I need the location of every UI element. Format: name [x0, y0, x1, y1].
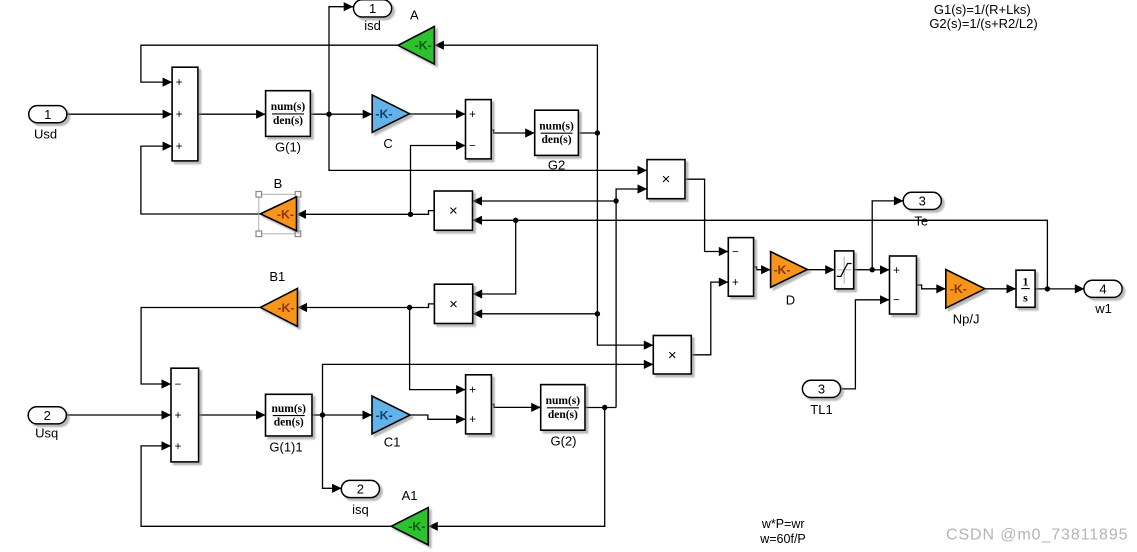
node isq junction at G(1)1 output	[320, 412, 325, 417]
wire product X4 output to Te-sum input plus	[691, 278, 728, 355]
wire G(2) output to vertical bus	[585, 407, 616, 409]
wire TL1 inport to w-sum input minus	[840, 295, 889, 389]
product block X2 (w x psiq)	[434, 191, 472, 230]
svg-text:-K-: -K-	[277, 207, 294, 221]
svg-text:num(s): num(s)	[546, 395, 581, 407]
sum block d-axis Add2 (+ -)	[466, 100, 492, 159]
node w feedback junction at X3 branch	[513, 218, 518, 223]
wire G2 node down to junction at B1-row	[596, 133, 598, 314]
svg-text:3: 3	[818, 382, 825, 397]
wire Usd inport to d-sum1 input 2	[66, 110, 172, 119]
node isd junction at G(1) output	[326, 112, 331, 117]
svg-text:num(s): num(s)	[539, 120, 574, 132]
svg-text:w=60f/P: w=60f/P	[759, 532, 806, 546]
label G(1)	[275, 139, 301, 154]
gain C1 (blue, points right)	[372, 396, 410, 434]
svg-text:den(s): den(s)	[274, 417, 304, 429]
svg-text:s: s	[1023, 290, 1028, 304]
label TL1	[810, 402, 832, 417]
svg-text:num(s): num(s)	[271, 101, 306, 113]
wire G(1) output to C-gain input	[310, 110, 372, 119]
svg-text:−: −	[175, 379, 182, 391]
annotation w=60f/P	[759, 532, 806, 546]
wire G(2) bus up to product X1 input 2	[616, 184, 647, 407]
wire q-sum1 output to G(1)1 input	[199, 410, 266, 419]
svg-text:Usd: Usd	[34, 127, 57, 142]
label isd	[364, 18, 381, 33]
inport 1 Usd	[29, 106, 67, 123]
label Te	[914, 214, 928, 229]
gain C (blue, points right)	[372, 95, 409, 132]
wire w feedback branch down to product X3 input 1	[473, 220, 516, 298]
inport 2 Usq	[28, 407, 66, 424]
svg-text:−: −	[469, 140, 476, 152]
wire D-gain output to saturation input	[807, 265, 834, 274]
wire G2 node up to A-gain input	[434, 41, 597, 133]
svg-text:w1: w1	[1094, 301, 1112, 316]
outport 3 Te	[903, 192, 941, 209]
inport 3 TL1	[802, 380, 840, 397]
label G(1)1	[269, 440, 302, 455]
sum block torque Add5 (- +)	[728, 238, 753, 297]
annotation G1(s)=1/(R+Lks)	[934, 2, 1031, 17]
wire A1-gain output to q-sum1 input 3	[141, 441, 391, 526]
transfer function G2	[535, 110, 579, 155]
wire product X2 output to B-gain input	[297, 210, 435, 219]
wire B-gain output to d-sum1 input 3	[141, 142, 260, 215]
label Usd	[34, 127, 57, 142]
product block X1 (isd x psiq)	[647, 160, 685, 199]
svg-text:G2(s)=1/(s+R2/L2): G2(s)=1/(s+R2/L2)	[929, 16, 1037, 31]
wire X3 output node down to q-sum2 input 1	[410, 308, 466, 395]
svg-text:1: 1	[44, 107, 51, 122]
annotation G2(s)=1/(s+R2/L2)	[929, 16, 1037, 31]
gain A (green, points left)	[398, 27, 434, 65]
gain B1 (orange, points left)	[260, 288, 297, 326]
svg-text:A1: A1	[402, 488, 418, 503]
svg-text:+: +	[175, 441, 182, 453]
svg-text:isd: isd	[364, 18, 381, 33]
wire Usq inport to q-sum1 input 2	[67, 410, 171, 419]
svg-text:B: B	[274, 176, 283, 191]
wire isd node up to isd outport	[329, 2, 353, 114]
wire saturation node up to Te outport	[872, 196, 903, 269]
svg-text:Np/J: Np/J	[953, 311, 980, 326]
label B1	[269, 269, 285, 284]
svg-text:num(s): num(s)	[271, 403, 306, 415]
sum block q-axis Add3 (- + +)	[171, 368, 199, 462]
node G2 bus junction at B1-row	[595, 311, 600, 316]
wire NpJ-gain output to integrator input	[985, 284, 1016, 293]
watermark CSDN @m0_73811895	[946, 527, 1128, 544]
wire w1 feedback to product X2 input 2	[473, 216, 1048, 289]
label G2	[548, 157, 565, 172]
svg-text:1: 1	[1023, 274, 1029, 288]
svg-text:-K-: -K-	[376, 408, 393, 422]
wire G2 bus down to product X4 input 1	[597, 314, 653, 350]
svg-text:isq: isq	[352, 502, 369, 517]
svg-text:+: +	[893, 265, 900, 277]
svg-text:C1: C1	[384, 434, 401, 449]
sum block speed Add6 (+ -)	[890, 256, 917, 314]
svg-text:-K-: -K-	[773, 263, 790, 277]
label C	[383, 136, 392, 151]
svg-text:w*P=wr: w*P=wr	[761, 517, 805, 531]
svg-text:Usq: Usq	[35, 425, 58, 440]
svg-text:C: C	[383, 136, 392, 151]
wire G(1)1 output to C1-gain input	[312, 410, 372, 419]
product block X3 (w x psid)	[434, 284, 472, 323]
svg-text:den(s): den(s)	[273, 115, 303, 127]
svg-text:-K-: -K-	[415, 39, 432, 53]
svg-text:G2: G2	[548, 157, 565, 172]
svg-text:+: +	[176, 77, 183, 89]
label C1	[384, 434, 401, 449]
wire X2 output node up to d-sum2 input minus	[411, 141, 466, 214]
label w1	[1094, 301, 1112, 316]
svg-text:4: 4	[1099, 281, 1106, 296]
wire A-gain output to d-sum1 input 1	[141, 45, 398, 86]
svg-text:+: +	[176, 141, 183, 153]
svg-text:+: +	[732, 277, 739, 289]
node saturation output junction	[870, 267, 875, 272]
wire B1-gain output to q-sum1 input minus	[141, 308, 260, 389]
label Usq	[35, 425, 58, 440]
wire G2 output to vertical bus	[578, 132, 597, 134]
sum block q-axis Add4 (+ +)	[466, 375, 492, 434]
svg-text:CSDN @m0_73811895: CSDN @m0_73811895	[946, 527, 1128, 544]
node X2 output junction	[408, 212, 413, 217]
svg-text:2: 2	[357, 482, 364, 497]
svg-text:×: ×	[449, 296, 458, 313]
svg-text:1: 1	[369, 1, 376, 16]
wire isq node up to product X4 input 2	[323, 360, 654, 415]
label B	[274, 176, 283, 191]
svg-text:G(2): G(2)	[551, 433, 577, 448]
label A1	[402, 488, 418, 503]
svg-text:×: ×	[662, 171, 671, 188]
svg-text:-K-: -K-	[375, 107, 392, 121]
wire C-gain output to d-sum2 input +	[410, 109, 466, 118]
label G(2)	[551, 433, 577, 448]
annotation w*P=wr	[761, 517, 805, 531]
svg-text:Te: Te	[914, 214, 928, 229]
product block X4 (psid x isq)	[653, 336, 691, 375]
svg-text:G(1)1: G(1)1	[269, 440, 302, 455]
node X3 output junction	[407, 305, 412, 310]
svg-text:3: 3	[919, 194, 926, 209]
svg-text:×: ×	[449, 203, 458, 220]
svg-text:+: +	[176, 109, 183, 121]
svg-text:+: +	[469, 109, 476, 121]
gain A1 (green, points left)	[391, 508, 428, 546]
wire G2 bus to product X3 input 2	[473, 309, 598, 318]
svg-text:-K-: -K-	[950, 282, 967, 296]
svg-text:G1(s)=1/(R+Lks): G1(s)=1/(R+Lks)	[934, 2, 1031, 17]
outport 2 isq	[341, 480, 379, 497]
label Np/J	[953, 311, 980, 326]
selection marquee around gain B	[256, 192, 301, 237]
node G(2) bus junction at X2 row	[613, 198, 618, 203]
gain D (orange, points right)	[771, 252, 808, 288]
wire Te-sum output to D-gain input	[754, 265, 771, 274]
wire G(2) bus to product X2 input 1	[473, 196, 617, 205]
svg-text:2: 2	[44, 408, 51, 423]
transfer function G(1)1	[266, 394, 313, 436]
wire isd node down to product X1 input 1	[329, 114, 647, 175]
transfer function G(2)	[541, 385, 585, 431]
svg-text:+: +	[469, 385, 476, 397]
wire d-sum2 output to G2 input	[491, 128, 535, 137]
svg-text:+: +	[469, 414, 476, 426]
integrator block 1/s	[1016, 270, 1035, 307]
wire integrator output to w1 outport	[1035, 284, 1084, 293]
svg-text:A: A	[410, 7, 419, 22]
label isq	[352, 502, 369, 517]
wire saturation output to w-sum input plus	[854, 265, 890, 274]
transfer function G(1)	[266, 91, 311, 137]
node G2 output junction	[595, 130, 600, 135]
outport 1 isd	[354, 0, 392, 17]
svg-text:den(s): den(s)	[548, 409, 578, 421]
node G(2) output junction	[602, 405, 607, 410]
svg-text:B1: B1	[269, 269, 285, 284]
svg-text:−: −	[732, 246, 739, 258]
label A	[410, 7, 419, 22]
wire product X1 output to Te-sum input minus	[685, 179, 728, 256]
svg-text:-K-: -K-	[277, 301, 294, 315]
saturation block	[835, 251, 854, 289]
gain B (orange, points left)	[260, 197, 296, 231]
wire w-sum output to NpJ-gain input	[917, 284, 946, 293]
svg-text:D: D	[786, 293, 795, 308]
gain Np/J (orange, points right)	[946, 270, 985, 309]
svg-text:×: ×	[668, 347, 677, 364]
svg-text:TL1: TL1	[810, 402, 832, 417]
wire product X3 output to B1-gain input	[298, 303, 435, 312]
svg-text:G(1): G(1)	[275, 139, 301, 154]
node w1 feedback junction	[1045, 286, 1050, 291]
wire G(2) node down to A1-gain input	[428, 408, 604, 531]
label D	[786, 293, 795, 308]
svg-text:+: +	[175, 410, 182, 422]
wire d-sum1 output to G(1) input	[198, 110, 266, 119]
svg-text:den(s): den(s)	[542, 134, 572, 146]
wire q-sum2 output to G(2) input	[491, 403, 540, 412]
outport 4 w1	[1084, 280, 1122, 297]
wire isq node down to isq outport	[323, 415, 342, 493]
wire C1-gain output to q-sum2 input 2	[410, 415, 465, 424]
sum block d-axis Add1 (+ + +)	[172, 67, 198, 161]
svg-text:-K-: -K-	[408, 520, 425, 534]
svg-text:−: −	[893, 295, 900, 307]
